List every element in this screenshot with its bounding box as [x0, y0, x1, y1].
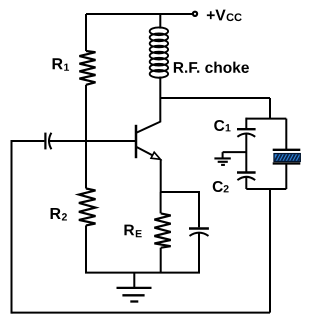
wire ground tap	[223, 152, 247, 157]
wire emitter vertical	[160, 159, 162, 192]
resistor RE	[154, 213, 170, 247]
wire feedback left riser	[11, 141, 13, 314]
label R1	[53, 58, 69, 71]
wire crystal bottom lead	[285, 163, 287, 189]
wire bypass cap bottom lead	[198, 233, 200, 273]
label RE	[124, 225, 141, 238]
coupling capacitor right plate (curved)	[49, 133, 51, 149]
wire top rail	[86, 13, 192, 15]
wire choke drop from rail	[159, 14, 161, 29]
wire C1 top lead	[245, 118, 247, 129]
crystal Y1 bottom plate	[273, 162, 301, 164]
ground (bottom)	[117, 288, 152, 302]
wire feedback drop	[269, 189, 271, 313]
wire C2 bottom lead	[245, 177, 247, 189]
wire RE bottom lead	[160, 248, 162, 273]
label C1	[214, 120, 230, 131]
wire crystal top lead	[285, 119, 287, 150]
ground (between C1 and C2)	[214, 158, 230, 165]
wire C1 to C2	[245, 134, 247, 172]
wire R1 bottom to R2 top (base divider)	[85, 85, 87, 189]
label R2	[51, 208, 67, 221]
resistor R2	[79, 189, 96, 226]
wire collector node to right branch	[160, 97, 270, 99]
resistor R1	[79, 51, 95, 85]
capacitor CE (emitter bypass)	[189, 227, 209, 229]
label C2	[213, 181, 229, 192]
wire bottom emitter rail	[85, 272, 200, 274]
capacitor C1	[237, 128, 256, 130]
wire R1 top lead	[85, 14, 87, 51]
label +Vcc	[207, 10, 242, 21]
crystal Y1 top plate	[273, 149, 301, 151]
inductor R.F. choke	[150, 27, 168, 77]
wire ground stem (bottom)	[133, 273, 135, 288]
wire RE top lead	[160, 192, 162, 213]
coupling capacitor left plate	[44, 133, 46, 150]
terminal +Vcc	[193, 12, 197, 16]
transistor Q1 emitter arrowhead	[151, 152, 160, 159]
capacitor C2	[237, 171, 256, 173]
wire choke bottom to collector node	[159, 77, 161, 99]
transistor Q1 emitter diagonal	[137, 147, 156, 157]
wire tank top bar	[246, 118, 286, 120]
wire feedback to coupling cap	[11, 140, 45, 142]
wire feedback bottom	[12, 312, 271, 314]
wire coupling cap to base	[49, 140, 135, 142]
wire bypass cap top lead	[198, 191, 200, 227]
transistor Q1 collector diagonal	[137, 122, 161, 133]
label R.F. choke	[174, 62, 249, 73]
wire right branch down to tank top	[269, 98, 271, 119]
transistor Q1 base bar	[135, 125, 138, 158]
wire R2 bottom lead	[85, 225, 87, 272]
wire tank bottom bar	[246, 188, 286, 190]
wire emitter node to bypass branch	[161, 191, 199, 193]
wire collector vertical	[159, 98, 161, 122]
